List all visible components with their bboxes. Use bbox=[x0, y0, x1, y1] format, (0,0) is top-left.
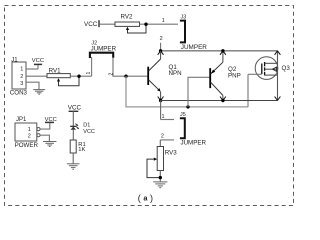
svg-text:1K: 1K bbox=[78, 147, 85, 153]
power VCC (J1 pin1) bbox=[32, 58, 44, 65]
power VCC (JP1) bbox=[45, 117, 57, 123]
node Q1 emitter on rail B bbox=[158, 97, 164, 103]
svg-text:Q3: Q3 bbox=[282, 65, 291, 72]
node rail A / J3 / Q1 collector bbox=[158, 49, 164, 55]
wire J1 pin2 to RV1 bbox=[26, 75, 47, 77]
node RV1 wiper junction bbox=[77, 75, 80, 78]
node Q2 collector on rail B bbox=[220, 97, 226, 103]
svg-text:): ) bbox=[150, 193, 153, 203]
svg-text:VCC: VCC bbox=[68, 104, 82, 111]
node rail A right corner arrow bbox=[275, 51, 281, 55]
ground (J1 pin3) bbox=[33, 90, 45, 95]
potentiometer RV1 bbox=[47, 68, 79, 86]
wire JP1 pin1 bbox=[40, 123, 50, 130]
svg-text:CON3: CON3 bbox=[10, 89, 28, 96]
svg-text:(: ( bbox=[138, 193, 141, 203]
wire gray rail up to Q3 gate bbox=[247, 74, 249, 107]
resistor R1 bbox=[70, 140, 86, 153]
svg-text:JUMPER: JUMPER bbox=[181, 44, 207, 51]
connector J1 bbox=[10, 57, 28, 96]
wire rail B (emitter rail) bbox=[161, 100, 278, 102]
wire base branch down to gray rail bbox=[126, 76, 248, 107]
wire J2 pin2 to Q1 base bbox=[113, 57, 148, 76]
svg-text:1: 1 bbox=[28, 127, 31, 133]
wire Q1 emitter node down to J5 bbox=[160, 101, 162, 120]
svg-text:2: 2 bbox=[28, 133, 31, 139]
node Q1 base junction bbox=[124, 75, 127, 78]
ground (JP1 pin2) bbox=[43, 142, 56, 147]
diode D1 bbox=[70, 122, 95, 135]
ground (RV3) bbox=[153, 182, 167, 188]
wire J3 pin2 stub bbox=[160, 43, 162, 51]
border frame bbox=[5, 6, 294, 206]
svg-text:2: 2 bbox=[20, 74, 23, 80]
svg-text:JUMPER: JUMPER bbox=[91, 45, 117, 52]
svg-text:1: 1 bbox=[162, 18, 165, 24]
svg-text:NPN: NPN bbox=[169, 70, 182, 77]
wire VCC to D1 bbox=[72, 111, 74, 126]
wire J1 pin3 bbox=[26, 82, 39, 89]
svg-text:JP1: JP1 bbox=[16, 117, 27, 123]
wire J2 pin1 bbox=[91, 57, 93, 76]
transistor Q2 bbox=[188, 51, 241, 107]
wire J5 pin1 bbox=[161, 119, 174, 121]
wire D1 to R1 bbox=[72, 130, 74, 140]
wire Q3 drain/source vertical bbox=[277, 51, 279, 101]
jumper J2 bbox=[90, 40, 117, 58]
svg-text:1: 1 bbox=[20, 67, 23, 73]
svg-text:2: 2 bbox=[160, 36, 163, 42]
node RV3 bottom junction bbox=[159, 176, 162, 179]
svg-text:VCC: VCC bbox=[32, 58, 44, 64]
svg-text:2: 2 bbox=[161, 134, 164, 140]
node rail B right corner arrow bbox=[275, 97, 281, 101]
svg-text:VCC: VCC bbox=[84, 21, 98, 28]
power VCC (top, at RV2) bbox=[84, 20, 99, 28]
wire J1 pin1 bbox=[26, 68, 38, 70]
wire JP1 pin2 bbox=[40, 135, 49, 141]
transistor Q1 bbox=[148, 51, 181, 101]
svg-text:J5: J5 bbox=[180, 112, 186, 118]
node Q2 emitter on rail A bbox=[220, 49, 226, 55]
svg-text:D1: D1 bbox=[83, 122, 90, 128]
wire R1 to ground bbox=[72, 153, 74, 164]
wire RV2 to J3 pin1 bbox=[140, 23, 179, 25]
svg-text:3: 3 bbox=[20, 81, 23, 87]
svg-text:RV3: RV3 bbox=[165, 150, 177, 157]
svg-text:PNP: PNP bbox=[228, 72, 241, 79]
svg-text:J3: J3 bbox=[181, 14, 187, 20]
jumper J3 bbox=[180, 14, 207, 51]
wire RV1 to J2 pin1 bbox=[70, 75, 91, 77]
wire J5 pin2 to RV3 bbox=[159, 140, 161, 147]
power VCC (D1 branch) bbox=[68, 104, 82, 111]
node Q2 base on gray rail bbox=[186, 105, 189, 108]
jumper J5 bbox=[180, 112, 207, 146]
potentiometer RV2 bbox=[115, 13, 146, 33]
connector JP1 bbox=[15, 117, 41, 149]
svg-text:VCC: VCC bbox=[83, 129, 95, 135]
svg-text:POWER: POWER bbox=[15, 142, 39, 149]
svg-text:JUMPER: JUMPER bbox=[181, 139, 207, 146]
wire J5 pin2 bbox=[160, 139, 174, 141]
wire rail A (collector rail) bbox=[161, 50, 278, 52]
wire VCC to RV2 bbox=[100, 23, 115, 25]
wire RV3 bottom bbox=[159, 171, 161, 182]
ground (R1) bbox=[67, 164, 80, 170]
potentiometer RV3 bbox=[147, 147, 177, 178]
node RV2 wiper junction bbox=[144, 23, 147, 26]
svg-text:RV2: RV2 bbox=[121, 13, 133, 20]
transistor Q3 (MOSFET) bbox=[248, 57, 290, 80]
